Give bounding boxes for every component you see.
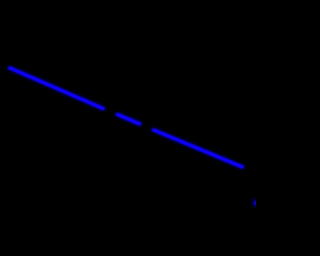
blue light streak: core segment 2 (middle dash): [118, 115, 140, 124]
small blurred blue blob clipped at right edge: outer glow: [253, 200, 259, 206]
black background: [0, 0, 256, 256]
small blurred blue blob clipped at right edge: core: [255, 201, 259, 205]
blue light streak: core segment 3: [154, 130, 242, 167]
blue light streak: core segment 1: [10, 68, 103, 109]
blue light streak: outer glow: [10, 68, 242, 167]
